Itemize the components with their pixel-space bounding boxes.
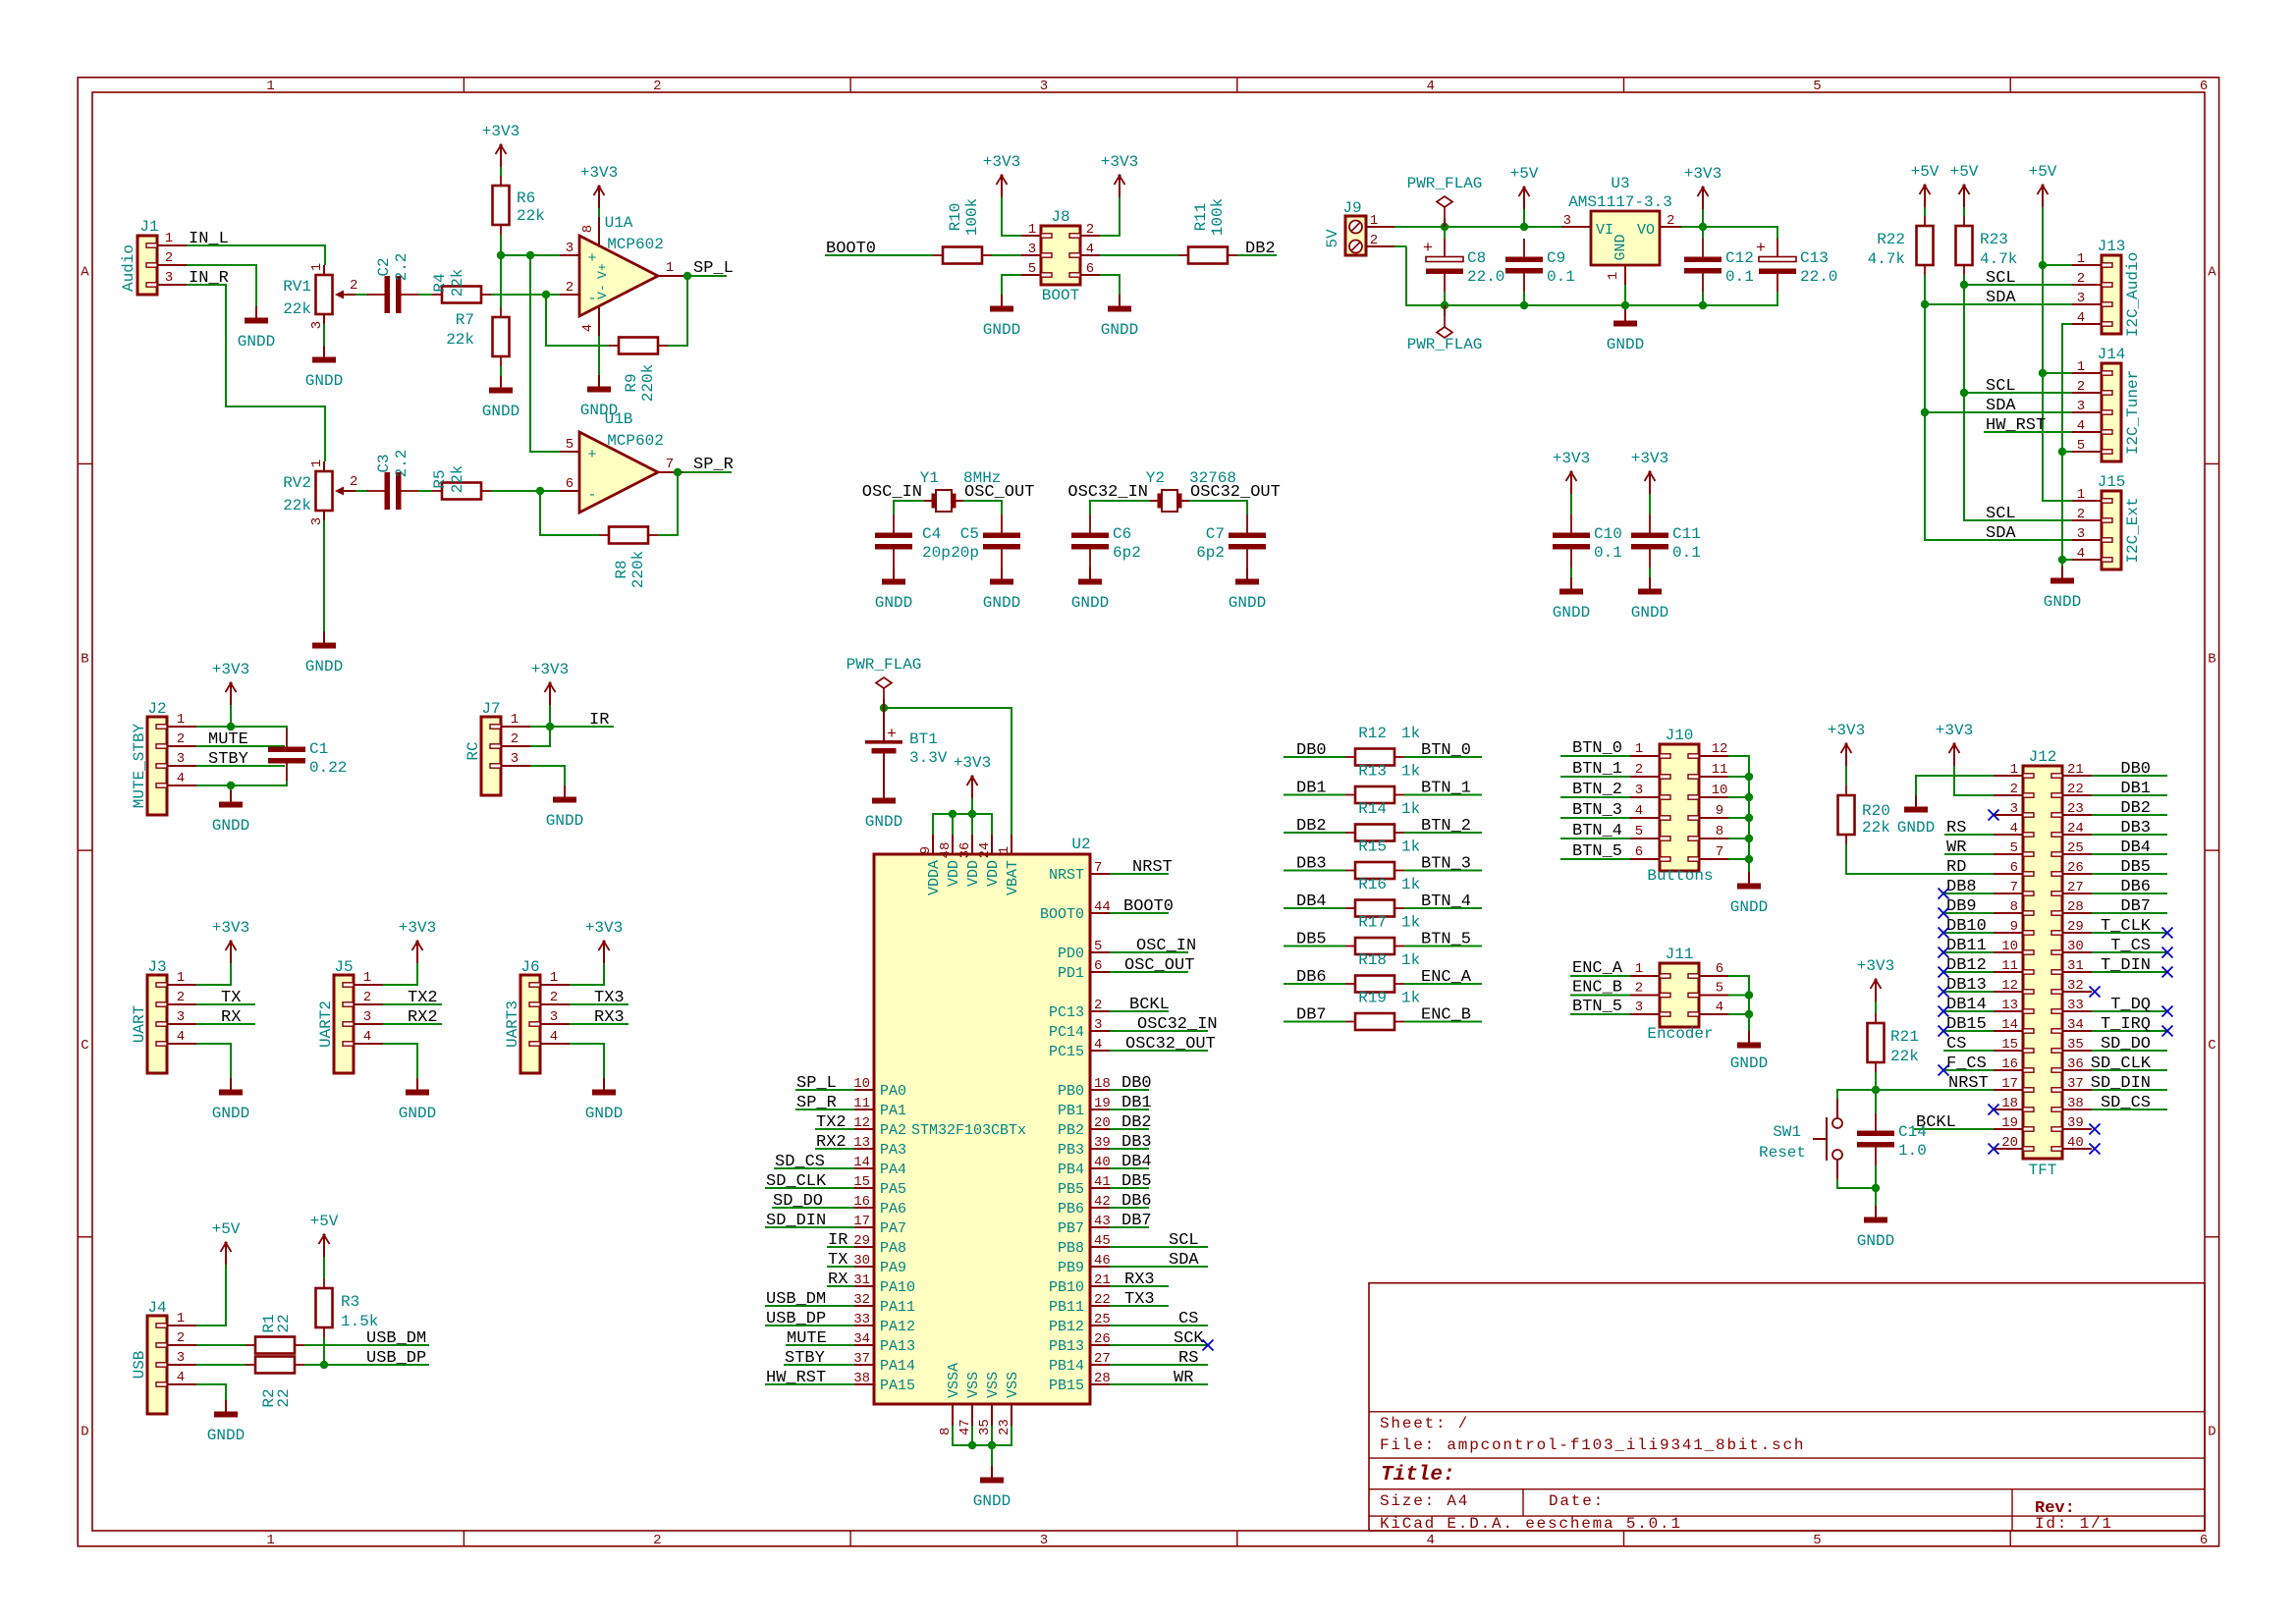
wire J11 right stub (1728, 1013, 1749, 1015)
svg-text:J10: J10 (1666, 727, 1694, 744)
svg-text:2: 2 (363, 990, 371, 1005)
svg-text:2: 2 (1370, 233, 1378, 248)
microcontroller U2 STM32F103CBTx (853, 835, 1111, 1435)
wire U2 OSC32_OUT (1110, 1050, 1208, 1052)
svg-text:ENC_A: ENC_A (1421, 968, 1472, 987)
wire BTN J10 row 6 (1560, 858, 1630, 860)
svg-text:4: 4 (363, 1029, 371, 1045)
svg-text:BTN_1: BTN_1 (1421, 780, 1471, 798)
svg-text:44: 44 (1094, 899, 1111, 915)
svg-text:3: 3 (2077, 526, 2085, 542)
svg-text:PWR_FLAG: PWR_FLAG (1407, 175, 1483, 192)
svg-text:PA3: PA3 (880, 1142, 906, 1159)
no-connect DB13 J12 (1939, 987, 1949, 998)
svg-text:SP_R: SP_R (693, 456, 734, 474)
svg-text:+: + (1423, 240, 1433, 258)
svg-text:C13: C13 (1800, 249, 1829, 267)
svg-text:2: 2 (550, 990, 558, 1005)
svg-text:SCL: SCL (1169, 1231, 1199, 1250)
svg-text:6: 6 (1635, 844, 1643, 860)
svg-text:PA14: PA14 (880, 1358, 915, 1375)
junction gnd rail C9 (1520, 301, 1528, 309)
svg-text:OSC32_IN: OSC32_IN (1067, 483, 1148, 502)
svg-text:UART: UART (131, 1005, 148, 1043)
svg-text:KiCad E.D.A. eeschema 5.0.1: KiCad E.D.A. eeschema 5.0.1 (1380, 1515, 1682, 1533)
svg-text:BTN_1: BTN_1 (1572, 760, 1622, 779)
svg-text:3: 3 (1635, 1000, 1643, 1015)
svg-text:1: 1 (550, 970, 558, 986)
ground GNDD J10 (1730, 872, 1768, 916)
svg-text:VO: VO (1637, 222, 1655, 239)
svg-text:2: 2 (177, 990, 185, 1005)
svg-text:2: 2 (177, 1330, 185, 1346)
svg-text:43: 43 (1094, 1214, 1111, 1229)
wire BTN_5 J11 (1570, 1013, 1630, 1015)
wire T_DIN J12 right (2092, 971, 2167, 973)
power +3V3 above C10 (1553, 450, 1590, 494)
svg-text:5: 5 (2077, 438, 2085, 454)
svg-text:GNDD: GNDD (207, 1427, 245, 1444)
wire J9 pin2 (1394, 245, 1406, 247)
svg-text:DB14: DB14 (1946, 996, 1987, 1014)
wire J10 right stub (1728, 817, 1749, 819)
wire J11 right stub (1728, 995, 1749, 997)
ground GNDD J6 (585, 1078, 623, 1122)
power +3V3 above R20 (1828, 722, 1865, 766)
svg-text:22k: 22k (446, 331, 474, 349)
junction J2 +3V3 (227, 723, 235, 730)
wire J10 gnd rail (1728, 756, 1749, 872)
svg-text:22k: 22k (1862, 819, 1890, 837)
svg-text:2: 2 (350, 474, 357, 490)
svg-text:+: + (887, 726, 897, 744)
wire U2 VSS rail (953, 1426, 1011, 1445)
svg-text:22k: 22k (449, 269, 466, 298)
svg-text:15: 15 (2001, 1037, 2018, 1053)
wire J10 right stub (1728, 796, 1749, 798)
junction SW1 C14 gnd (1872, 1184, 1880, 1192)
svg-text:+3V3: +3V3 (399, 919, 436, 937)
svg-text:DB10: DB10 (1946, 917, 1987, 936)
capacitor C8 22.0 electrolytic (1423, 239, 1505, 292)
svg-text:SD_DIN: SD_DIN (2091, 1074, 2151, 1093)
junction J10 gnd (1745, 773, 1753, 781)
wire DB12 J12 (1943, 971, 1994, 973)
junction +5V J13 (2039, 261, 2047, 269)
wire U2 SCK (1110, 1344, 1208, 1346)
connector J15 I2C_Ext (2072, 473, 2142, 569)
wire R5 to U1B minus input (491, 490, 560, 492)
wire NRST to SW1 (1837, 1090, 1876, 1099)
power +3V3 above R21 (1857, 957, 1894, 1001)
svg-text:3: 3 (2010, 801, 2018, 817)
svg-text:18: 18 (1094, 1076, 1111, 1092)
svg-text:41: 41 (1094, 1174, 1111, 1190)
gnd rail right connectors (2062, 324, 2072, 567)
connector J6 UART3 (504, 958, 570, 1073)
svg-text:GNDD: GNDD (1631, 604, 1668, 622)
svg-text:T_CLK: T_CLK (2101, 917, 2152, 936)
wire T_CLK J12 right (2092, 932, 2167, 934)
wire BOOT0 to R10 (825, 254, 933, 256)
svg-text:11: 11 (1712, 762, 1728, 778)
resistor R3 1.5k (316, 1278, 379, 1337)
svg-text:25: 25 (2067, 840, 2084, 856)
svg-text:4: 4 (177, 1029, 185, 1045)
svg-text:DB3: DB3 (2120, 819, 2151, 838)
ground GNDD U2 (973, 1466, 1011, 1510)
svg-text:22: 22 (275, 1388, 293, 1407)
svg-text:C3: C3 (375, 454, 393, 472)
wire TX (196, 1003, 255, 1005)
wire R8 to output (658, 472, 678, 535)
wire U2 DB6 (1110, 1207, 1149, 1209)
svg-text:OSC32_OUT: OSC32_OUT (1125, 1035, 1216, 1054)
svg-text:20: 20 (2001, 1135, 2018, 1151)
svg-text:PB11: PB11 (1049, 1299, 1084, 1316)
svg-text:PB10: PB10 (1049, 1279, 1084, 1296)
svg-text:J6: J6 (520, 958, 539, 976)
svg-text:9: 9 (918, 846, 934, 854)
svg-text:PB13: PB13 (1049, 1338, 1084, 1355)
svg-text:DB1: DB1 (1121, 1094, 1152, 1112)
ground GNDD BT1 (865, 786, 902, 831)
svg-text:14: 14 (2001, 1017, 2018, 1033)
svg-text:CS: CS (1946, 1035, 1966, 1054)
op-amp U1A MCP602 (560, 214, 683, 336)
wire C10 to ground (1570, 568, 1572, 577)
wire TX2 (383, 1003, 442, 1005)
no-connect DB8 J12 (1939, 889, 1949, 899)
wire +3V3 to R21 (1875, 1001, 1877, 1013)
wire VBAT (884, 708, 1011, 835)
svg-text:PA0: PA0 (880, 1083, 906, 1100)
resistor R10 100k (933, 198, 992, 264)
svg-text:1: 1 (666, 260, 674, 276)
svg-text:6p2: 6p2 (1113, 544, 1141, 562)
svg-text:DB1: DB1 (2120, 780, 2151, 798)
svg-text:1: 1 (1370, 213, 1378, 229)
connector J1 Audio (120, 218, 187, 295)
wire U2 VDD2 (952, 814, 954, 835)
resistor R9 220k (609, 338, 668, 403)
wire U2 DB5 (1110, 1187, 1149, 1189)
wire DB0 J12 right (2092, 775, 2167, 777)
svg-text:8: 8 (580, 225, 596, 233)
wire U2 gnd drop (991, 1445, 993, 1466)
wire +5V input rail (1394, 226, 1561, 228)
wire R21 to NRST (1875, 1072, 1877, 1090)
svg-text:1: 1 (177, 1311, 185, 1326)
svg-text:1k: 1k (1401, 990, 1420, 1007)
svg-text:GNDD: GNDD (983, 594, 1020, 612)
svg-text:VSS: VSS (965, 1372, 982, 1398)
capacitor C5 20p (951, 514, 1020, 568)
svg-text:13: 13 (853, 1135, 870, 1151)
svg-text:GNDD: GNDD (238, 333, 275, 351)
svg-text:TX: TX (828, 1251, 847, 1270)
junction gnd rail C8 (1441, 301, 1449, 309)
svg-text:+: + (587, 447, 596, 463)
svg-text:1: 1 (266, 1533, 274, 1548)
junction VDD rail 1 (949, 810, 957, 818)
svg-text:J5: J5 (334, 958, 353, 976)
wire DB6 (1284, 983, 1345, 985)
ground GNDD J12 (1897, 795, 1935, 837)
svg-text:15: 15 (853, 1174, 870, 1190)
svg-text:PB8: PB8 (1058, 1240, 1084, 1257)
wire U2 SD_CLK (765, 1187, 854, 1189)
connector J11 Encoder (1630, 946, 1728, 1043)
svg-text:R15: R15 (1358, 839, 1387, 856)
wire C9 bottom (1523, 292, 1525, 305)
svg-text:SD_CS: SD_CS (775, 1153, 825, 1171)
wire J12 pin1 to ground (1916, 776, 1994, 795)
connector J5 UART2 (317, 958, 383, 1073)
svg-text:17: 17 (853, 1214, 870, 1229)
wire R4 to U1A minus input (491, 294, 560, 296)
svg-text:GNDD: GNDD (1553, 604, 1590, 622)
svg-text:GNDD: GNDD (875, 594, 912, 612)
junction +5V J14 (2039, 369, 2047, 377)
svg-text:BTN_5: BTN_5 (1572, 842, 1622, 861)
svg-text:3: 3 (2077, 291, 2085, 306)
junction J2 gnd (227, 782, 235, 789)
svg-text:+3V3: +3V3 (1936, 722, 1973, 739)
wire J3 pin4 to ground (196, 1044, 231, 1078)
svg-text:+3V3: +3V3 (1828, 722, 1865, 739)
no-connect T_IRQ J12 right (2162, 1026, 2173, 1037)
svg-text:DB1: DB1 (1296, 780, 1327, 798)
no-connect DB11 J12 (1939, 947, 1949, 958)
svg-text:26: 26 (1094, 1331, 1111, 1347)
svg-text:+5V: +5V (1510, 165, 1539, 183)
resistor R4 22k (431, 269, 491, 303)
wire U2 OSC_IN (1110, 951, 1188, 953)
wire R20 to RD (1846, 844, 1994, 874)
svg-text:VSS: VSS (985, 1372, 1002, 1398)
no-connect J12 pin20 (1989, 1144, 1999, 1155)
svg-text:RD: RD (1946, 858, 1966, 877)
wire node to U1A plus input (501, 254, 560, 256)
svg-text:R6: R6 (517, 189, 535, 207)
svg-text:24: 24 (977, 842, 993, 859)
svg-text:8: 8 (938, 1428, 954, 1435)
svg-text:WR: WR (1946, 839, 1966, 857)
svg-text:9: 9 (1716, 803, 1723, 819)
svg-text:+3V3: +3V3 (954, 754, 991, 772)
svg-text:VDDA: VDDA (926, 860, 943, 895)
resistor R7 22k (446, 307, 509, 366)
power +3V3 above U1A pin8 (580, 164, 618, 208)
svg-text:UART3: UART3 (504, 1001, 521, 1048)
wire U3 output rail (1681, 227, 1777, 240)
svg-text:1: 1 (2077, 359, 2085, 375)
svg-text:PD1: PD1 (1058, 965, 1084, 982)
svg-text:4.7k: 4.7k (1980, 250, 2017, 268)
junction VDD rail 2 (968, 810, 976, 818)
power +3V3 above R6 (482, 123, 519, 167)
wire DB11 J12 (1943, 951, 1994, 953)
svg-text:1: 1 (2077, 251, 2085, 267)
connector J10 Buttons (1630, 727, 1728, 885)
svg-text:4: 4 (2077, 418, 2085, 434)
potentiometer RV2 22k (283, 460, 357, 525)
svg-text:DB5: DB5 (1296, 931, 1327, 949)
svg-text:GNDD: GNDD (865, 813, 902, 831)
svg-text:5: 5 (1813, 1533, 1821, 1548)
svg-text:DB11: DB11 (1946, 937, 1987, 955)
svg-text:2: 2 (2077, 507, 2085, 522)
wire TX3 (570, 1003, 629, 1005)
svg-text:GNDD: GNDD (1857, 1232, 1894, 1250)
svg-text:NRST: NRST (1132, 858, 1173, 877)
ground GNDD J4 (207, 1400, 245, 1444)
wire R6 to node (500, 235, 502, 307)
svg-text:1k: 1k (1401, 800, 1420, 818)
svg-text:SCL: SCL (1986, 269, 2016, 288)
power +5V above R22 (1911, 163, 1940, 207)
svg-text:+3V3: +3V3 (580, 164, 618, 182)
svg-text:22k: 22k (283, 497, 311, 514)
svg-text:BOOT0: BOOT0 (1040, 906, 1084, 923)
svg-text:4.7k: 4.7k (1868, 250, 1905, 268)
svg-text:I2C_Ext: I2C_Ext (2124, 497, 2142, 563)
svg-text:DB5: DB5 (2120, 858, 2151, 877)
wire J12 pin2 (1954, 766, 1994, 795)
svg-text:DB7: DB7 (1296, 1006, 1327, 1025)
svg-text:PB7: PB7 (1058, 1220, 1084, 1237)
wire BTN_2 (1404, 832, 1482, 834)
svg-text:C7: C7 (1206, 525, 1225, 543)
svg-text:PA15: PA15 (880, 1378, 915, 1394)
svg-text:U1A: U1A (605, 214, 633, 232)
wire U2 VDD rail (933, 814, 992, 835)
svg-text:22.0: 22.0 (1800, 268, 1837, 286)
no-connect DB12 J12 (1939, 967, 1949, 978)
svg-text:DB8: DB8 (1946, 878, 1977, 896)
svg-text:4: 4 (1094, 1037, 1102, 1053)
wire J7 pin3 to ground (530, 766, 565, 785)
wire BTN J10 row 4 (1560, 817, 1630, 819)
svg-text:RC: RC (465, 741, 482, 760)
svg-text:OSC_OUT: OSC_OUT (1124, 956, 1194, 975)
ground GNDD J3 (212, 1078, 249, 1122)
junction VSS rail 2 (988, 1441, 996, 1449)
svg-text:RS: RS (1178, 1349, 1198, 1368)
wire J2 pin1 to +3V3 (196, 727, 287, 730)
wire U2 RX3 (1110, 1285, 1169, 1287)
wire R9 to output (668, 276, 687, 346)
resistor R12 1k (1345, 725, 1420, 766)
wire NRST J12 (1876, 1089, 1994, 1091)
wire U2 RS (1110, 1364, 1208, 1366)
power +3V3 at J12 pin2 (1936, 722, 1973, 766)
svg-text:IR: IR (589, 711, 609, 730)
capacitor C12 0.1 (1684, 239, 1754, 292)
svg-text:OSC_OUT: OSC_OUT (964, 483, 1034, 502)
svg-text:+5V: +5V (2029, 163, 2057, 181)
svg-text:1k: 1k (1401, 951, 1420, 969)
svg-text:22k: 22k (1890, 1048, 1919, 1065)
svg-text:PA2: PA2 (880, 1122, 906, 1139)
svg-text:1: 1 (2010, 762, 2018, 778)
svg-text:36: 36 (2067, 1056, 2084, 1072)
capacitor C11 0.1 (1631, 514, 1701, 568)
svg-text:DB6: DB6 (1296, 968, 1327, 987)
no-connect T_DIN J12 right (2162, 967, 2173, 978)
svg-text:30: 30 (2067, 939, 2084, 954)
svg-text:MUTE_STBY: MUTE_STBY (131, 723, 148, 808)
wire R1 to USB_DM (304, 1344, 429, 1346)
svg-text:R22: R22 (1877, 231, 1905, 248)
svg-text:32: 32 (2067, 978, 2084, 994)
svg-text:PB0: PB0 (1058, 1083, 1084, 1100)
wire +5V stub (1523, 209, 1525, 227)
wire U2 DB0 (1110, 1089, 1149, 1091)
svg-text:24: 24 (2067, 821, 2084, 837)
resistor R1 22 (246, 1314, 304, 1353)
svg-text:BOOT0: BOOT0 (1123, 897, 1174, 916)
svg-text:USB_DM: USB_DM (366, 1329, 426, 1348)
wire T_CS J12 right (2092, 951, 2167, 953)
svg-text:C10: C10 (1594, 525, 1622, 543)
wire U2 BCKL (1110, 1010, 1169, 1012)
svg-text:SP_L: SP_L (693, 259, 734, 278)
svg-text:SCL: SCL (1986, 377, 2016, 396)
svg-text:DB4: DB4 (1296, 893, 1327, 911)
svg-text:PA5: PA5 (880, 1181, 906, 1198)
potentiometer RV1 22k (283, 263, 357, 329)
junction R4/U1A feedback (542, 291, 550, 298)
svg-text:AMS1117-3.3: AMS1117-3.3 (1568, 193, 1672, 211)
svg-text:WR: WR (1174, 1369, 1193, 1387)
svg-text:3: 3 (363, 1009, 371, 1025)
wire SCL rail (1964, 275, 2072, 520)
power +3V3 at J3 (212, 919, 249, 963)
svg-text:34: 34 (2067, 1017, 2084, 1033)
svg-text:3: 3 (566, 241, 574, 256)
wire C2 to R4 (418, 294, 432, 296)
svg-text:2: 2 (2077, 271, 2085, 287)
svg-text:13: 13 (2001, 998, 2018, 1013)
svg-text:C4: C4 (922, 525, 941, 543)
svg-text:D: D (2208, 1425, 2215, 1440)
svg-text:HW_RST: HW_RST (1986, 416, 2046, 435)
svg-text:BTN_0: BTN_0 (1572, 739, 1622, 758)
svg-text:B: B (81, 651, 88, 667)
junction SDA J14 (1921, 408, 1929, 416)
svg-text:SD_CLK: SD_CLK (2091, 1055, 2152, 1073)
junction SCL J13 (1960, 281, 1968, 289)
wire J4 pin2 to R1 (196, 1344, 246, 1346)
svg-text:PB12: PB12 (1049, 1319, 1084, 1335)
wire U2 SDA (1110, 1266, 1208, 1268)
svg-text:27: 27 (1094, 1351, 1111, 1367)
wire U2 HW_RST (765, 1383, 854, 1385)
svg-text:V+: V+ (595, 263, 610, 279)
svg-text:R10: R10 (947, 203, 964, 232)
svg-text:BTN_4: BTN_4 (1421, 893, 1471, 911)
svg-text:3: 3 (165, 270, 173, 286)
svg-text:9: 9 (2010, 919, 2018, 935)
svg-text:Buttons: Buttons (1647, 867, 1713, 885)
svg-text:NRST: NRST (1948, 1074, 1989, 1093)
no-connect DB14 J12 (1939, 1006, 1949, 1017)
ground rail bottom (1406, 246, 1777, 305)
connector J7 RC (465, 700, 530, 795)
svg-text:40: 40 (1094, 1155, 1111, 1170)
